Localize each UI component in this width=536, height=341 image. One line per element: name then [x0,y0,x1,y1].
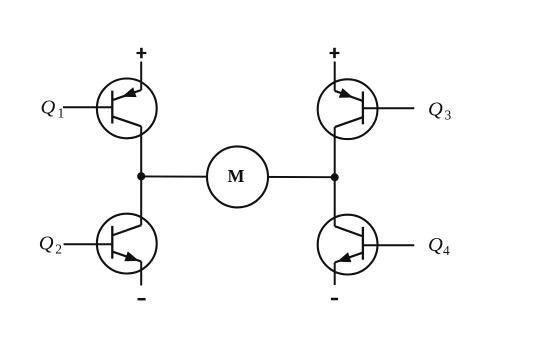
svg-text:Q: Q [428,98,443,120]
svg-text:Q: Q [428,234,443,256]
svg-text:2: 2 [55,242,62,257]
svg-text:4: 4 [443,243,450,258]
svg-text:Q: Q [39,233,54,255]
svg-text:1: 1 [58,105,65,120]
svg-text:Q: Q [41,96,56,118]
svg-text:3: 3 [445,107,452,122]
svg-text:M: M [228,166,245,186]
